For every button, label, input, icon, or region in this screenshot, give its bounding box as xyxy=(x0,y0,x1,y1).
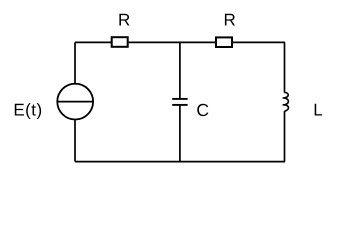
wire bottom horizontal xyxy=(75,161,285,163)
voltage source E(t) circle xyxy=(57,84,93,120)
svg-text:E(t): E(t) xyxy=(13,100,42,119)
svg-text:R: R xyxy=(224,10,236,29)
capacitor C bottom plate xyxy=(172,104,187,106)
svg-text:R: R xyxy=(118,10,130,29)
voltage source diameter line xyxy=(58,101,93,103)
wire middle vertical lower (capacitor to bottom) xyxy=(179,105,181,162)
svg-text:C: C xyxy=(196,100,209,120)
wire right vertical lower xyxy=(284,111,286,161)
resistor R2 body xyxy=(216,37,232,47)
capacitor C top plate xyxy=(172,98,187,100)
wire left vertical (source branch) xyxy=(74,42,76,161)
resistor R1 body xyxy=(112,37,128,47)
inductor L coil xyxy=(283,92,289,111)
wire top horizontal xyxy=(75,41,285,43)
wire right vertical upper xyxy=(284,42,286,92)
wire middle vertical upper (node to capacitor) xyxy=(179,42,181,99)
svg-text:L: L xyxy=(313,101,322,120)
